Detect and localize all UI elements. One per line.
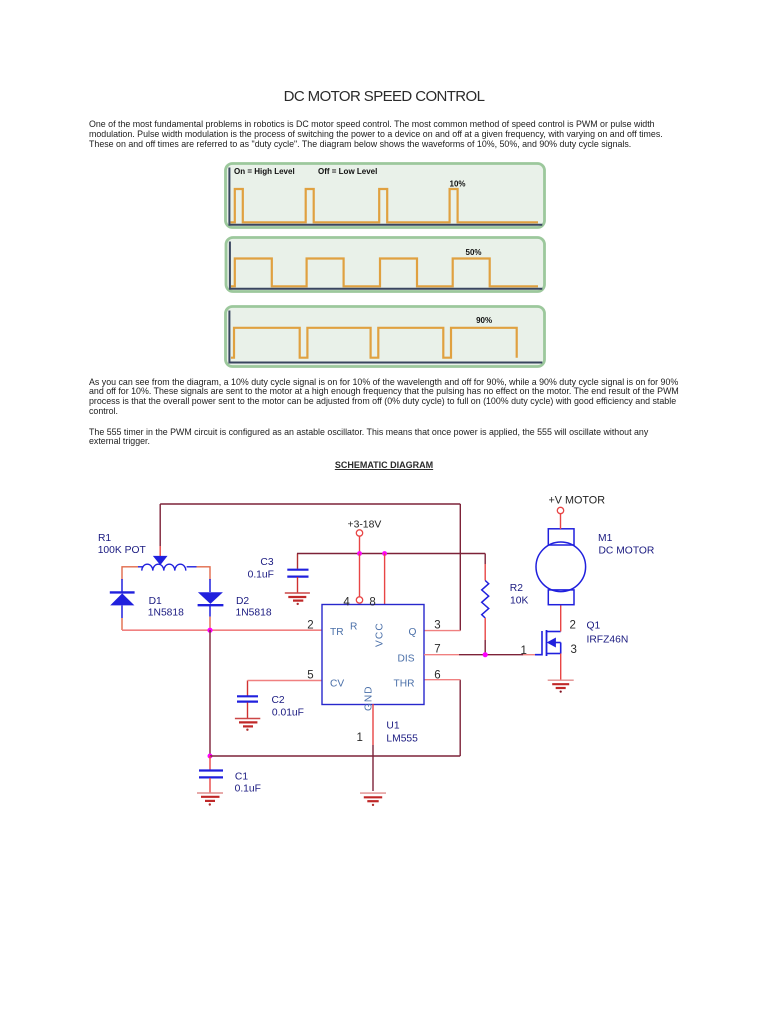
svg-text:1: 1 xyxy=(357,732,363,744)
ground for C3 xyxy=(285,593,310,605)
svg-text:+3-18V: +3-18V xyxy=(348,520,382,531)
waveform 90% trace xyxy=(231,328,517,358)
waveform panel 10% box xyxy=(226,164,545,228)
resistor R1 potentiometer xyxy=(122,556,210,580)
svg-text:0.1uF: 0.1uF xyxy=(248,570,274,581)
svg-text:3: 3 xyxy=(571,644,577,656)
svg-text:M1: M1 xyxy=(598,533,613,544)
svg-text:C1: C1 xyxy=(235,772,248,783)
svg-text:D1: D1 xyxy=(149,596,162,607)
waveform 10% trace xyxy=(231,189,539,222)
svg-text:2: 2 xyxy=(307,620,313,632)
power terminal +V MOTOR xyxy=(557,507,563,529)
wire 555 pin 1 to ground xyxy=(372,704,374,745)
title xyxy=(0,89,768,104)
svg-text:0.1uF: 0.1uF xyxy=(235,784,261,795)
paragraph 3 xyxy=(89,428,648,448)
waveform 50% trace xyxy=(231,259,538,287)
svg-text:7: 7 xyxy=(434,643,440,655)
wire THR right vertical xyxy=(459,680,461,756)
wire bottom horizontal THR net xyxy=(210,755,460,757)
svg-text:VCC: VCC xyxy=(374,622,385,647)
capacitor C2 xyxy=(237,681,258,719)
heading schematic diagram xyxy=(0,460,768,470)
svg-text:4: 4 xyxy=(343,597,350,609)
junction dot pin4 rail xyxy=(357,551,362,556)
paragraph 1 xyxy=(89,120,663,149)
junction dot C1 xyxy=(208,754,213,759)
svg-text:LM555: LM555 xyxy=(386,734,418,745)
wire wiper red stub xyxy=(159,546,161,556)
wire CV pin 5 xyxy=(248,680,323,682)
svg-text:R: R xyxy=(350,622,357,633)
junction dot TR net xyxy=(207,628,212,633)
junction dot gate xyxy=(483,652,488,657)
svg-text:5: 5 xyxy=(307,670,313,682)
svg-text:Q1: Q1 xyxy=(587,621,601,632)
wire feedback top horizontal xyxy=(160,503,460,505)
wire drain to motor xyxy=(560,605,562,632)
junction dot pin8 rail xyxy=(382,551,387,556)
svg-text:THR: THR xyxy=(394,679,415,690)
svg-text:8: 8 xyxy=(369,597,375,609)
svg-text:U1: U1 xyxy=(386,721,399,732)
svg-text:10%: 10% xyxy=(450,180,466,189)
capacitor C1 xyxy=(199,756,223,793)
svg-text:+V MOTOR: +V MOTOR xyxy=(549,495,606,507)
wire feedback right vertical xyxy=(459,504,461,631)
svg-text:100K POT: 100K POT xyxy=(98,545,147,556)
wire source to ground xyxy=(560,654,562,680)
waveform panel 90% box xyxy=(226,307,545,367)
svg-text:C2: C2 xyxy=(272,695,285,706)
svg-text:50%: 50% xyxy=(466,248,482,257)
wire TR net horizontal xyxy=(122,629,322,631)
svg-text:2: 2 xyxy=(570,620,576,632)
paragraph 2 xyxy=(89,378,679,417)
svg-text:D2: D2 xyxy=(236,596,249,607)
ground for C1 xyxy=(197,793,223,806)
svg-text:3: 3 xyxy=(434,620,440,632)
capacitor C3 xyxy=(287,554,308,593)
svg-text:TR: TR xyxy=(330,627,344,638)
ground for 555 pin 1 xyxy=(360,793,386,806)
IC U1 LM555 timer box xyxy=(322,605,424,705)
wire DIS pin 7 xyxy=(424,654,535,656)
svg-text:R2: R2 xyxy=(510,583,523,594)
wire wiper vertical xyxy=(159,504,161,546)
motor M1 xyxy=(536,529,586,605)
wire to pin 4 with bubble xyxy=(356,554,362,604)
waveform panel 50% box xyxy=(226,238,545,292)
transistor Q1 IRFZ46N xyxy=(535,630,561,656)
svg-text:On = High Level: On = High Level xyxy=(234,167,295,176)
svg-text:C3: C3 xyxy=(260,557,273,568)
svg-text:Q: Q xyxy=(409,627,417,638)
ground for Q1 source xyxy=(548,680,574,693)
wire THR pin 6 xyxy=(424,679,460,681)
svg-text:0.01uF: 0.01uF xyxy=(272,707,304,718)
svg-text:90%: 90% xyxy=(476,316,492,325)
svg-text:IRFZ46N: IRFZ46N xyxy=(587,635,629,646)
svg-text:Off = Low Level: Off = Low Level xyxy=(318,167,377,176)
svg-text:CV: CV xyxy=(330,679,344,690)
diode D1 xyxy=(110,579,135,630)
svg-text:1N5818: 1N5818 xyxy=(236,608,272,619)
wire to pin 8 xyxy=(384,554,386,605)
wire VCC rail xyxy=(297,553,485,555)
svg-text:10K: 10K xyxy=(510,595,528,606)
svg-text:1N5818: 1N5818 xyxy=(148,608,184,619)
ground for C2 xyxy=(235,719,260,731)
diode D2 xyxy=(198,579,224,630)
wire left vertical to C1 xyxy=(209,630,211,756)
svg-text:R1: R1 xyxy=(98,533,111,544)
svg-text:1: 1 xyxy=(521,645,527,657)
wire Q output pin 3 xyxy=(424,630,460,632)
svg-text:6: 6 xyxy=(434,670,440,682)
power terminal +3-18V xyxy=(356,530,362,554)
svg-text:DIS: DIS xyxy=(398,654,415,665)
svg-text:DC MOTOR: DC MOTOR xyxy=(599,546,655,557)
resistor R2 xyxy=(482,554,489,655)
